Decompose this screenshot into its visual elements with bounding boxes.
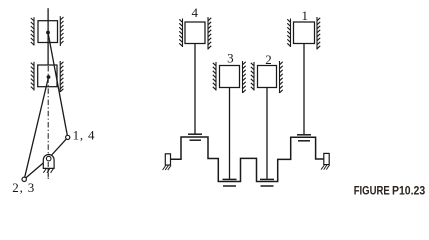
block 4 [185,22,205,44]
crank link O to A(2,3) [24,159,48,180]
crankshaft [171,137,325,182]
guide right of block 4 [208,17,211,50]
svg-text:P10.23: P10.23 [392,186,425,198]
ground hatching left bearing [163,165,171,170]
centerline (dash-dot) [47,66,49,179]
rod of cylinder 1 [303,44,305,135]
wrist pin (top position) [46,31,50,35]
main bearing right [324,153,329,164]
rod of cylinder 3 [229,88,231,179]
svg-text:2: 2 [265,52,272,67]
main bearing left [165,154,170,165]
guide right of lower slider [60,61,63,92]
crankpin symbol cylinder 3 [223,179,237,186]
piston rod (top position) [47,8,49,65]
svg-text:1: 1 [301,8,308,23]
slider block lower position [38,65,57,87]
crank link O to A(1,4) [49,137,68,158]
ground hatching right bearing [321,165,329,170]
guide right of block 2 [280,61,283,93]
guide left of block 2 [251,62,254,91]
guide left of top slider [31,17,34,45]
crank pin circle at 1,4 [66,135,70,139]
ground hatching under pivot [43,169,53,173]
crankpin symbol cylinder 2 [260,179,274,186]
guide left of block 1 [287,19,290,48]
svg-text:3: 3 [227,50,234,65]
guide left of block 4 [179,19,182,48]
svg-text:FIGURE: FIGURE [354,186,390,198]
guide right of top slider [60,16,63,46]
wrist pin (lower position) [47,75,51,79]
svg-text:2, 3: 2, 3 [12,180,35,195]
pivot pin circle [46,156,51,161]
fixed pivot O (tombstone base) [43,155,54,169]
block 3 [220,66,240,88]
svg-text:1, 4: 1, 4 [73,128,96,143]
guide right of block 3 [243,61,246,93]
crank pin circle at 2,3 [22,177,26,181]
slider block top position [38,21,58,43]
rod of cylinder 2 [266,88,268,179]
connecting rod position 1,4 [48,33,68,138]
guide right of block 1 [317,17,320,50]
centerline through pivot [47,162,49,179]
svg-text:4: 4 [191,5,198,20]
block 2 [258,66,277,88]
crankpin symbol cylinder 1 [297,135,311,141]
guide left of block 3 [213,62,216,91]
guide left of lower slider [31,62,34,91]
block 1 [294,22,315,44]
connecting rod position 2,3 [24,77,48,179]
crankpin symbol cylinder 4 [188,134,202,140]
rod of cylinder 4 [194,44,196,134]
